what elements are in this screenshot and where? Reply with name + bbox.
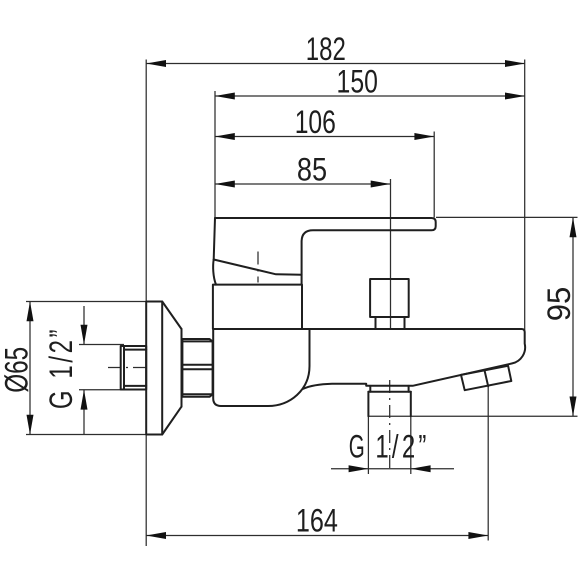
svg-text:106: 106 [295,104,336,140]
svg-text:182: 182 [306,31,346,67]
threaded nipple G1/2 [121,346,147,390]
dimension 85 [215,151,391,187]
hex connector nut [182,339,212,397]
dimension 95 [541,217,577,416]
lever handle [214,218,436,285]
aerator outlet [461,366,511,390]
cartridge dome [213,260,301,285]
centreline tub outlet [389,380,391,471]
shower hose outlet square [370,279,409,329]
extension line 95 bottom / outlet bottom plane [368,415,577,417]
dimension 182 [146,31,525,67]
extension line 164 right (aerator) [487,387,489,541]
svg-text:85: 85 [297,151,327,187]
svg-text:164: 164 [296,502,338,538]
svg-text:1/2”: 1/2” [375,429,429,465]
svg-text:G: G [349,429,365,465]
extension line 85 (shower outlet centre) [390,179,392,329]
centreline wall connector [108,367,150,369]
centreline cartridge [257,252,259,283]
left extension line for 150/106/85 [214,91,216,218]
wall plane extension line [145,60,147,547]
right body extension line [524,60,526,331]
extension lines G1/2 bottom [367,416,369,474]
dimension 150 [215,64,525,100]
wall flange [146,302,162,435]
svg-text:G 1/2”: G 1/2” [44,327,80,409]
dimension 164 [146,502,488,539]
extension line 106 (lever end) [433,132,435,218]
flange cone [162,302,181,435]
extension lines G1/2 left [79,344,124,346]
svg-text:95: 95 [541,287,577,322]
extension line 95 top (lever top plane) [436,216,578,218]
dimension dia65 [0,302,35,435]
extension lines dia65 [26,301,157,303]
tub outlet fitting G1/2 [368,386,410,416]
dimension G 1/2 left [44,306,88,434]
faucet body and spout [213,329,525,406]
svg-text:Ø65: Ø65 [0,347,35,393]
svg-text:150: 150 [337,64,378,100]
dimension 106 [215,104,434,140]
dimension G 1/2 bottom [331,429,454,473]
cartridge housing [213,285,302,329]
